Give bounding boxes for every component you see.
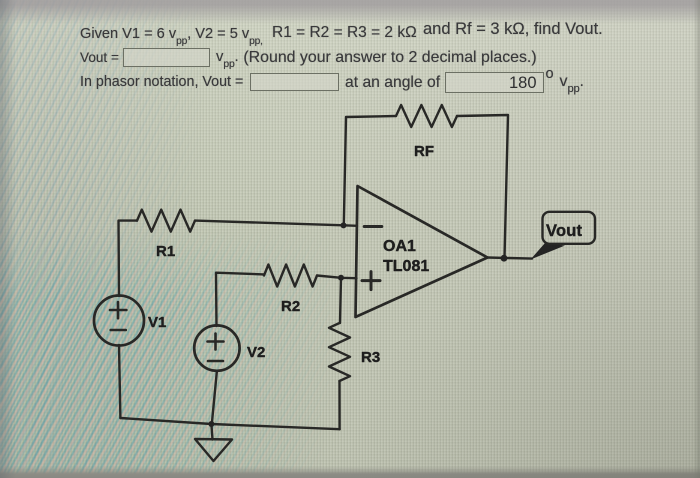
node J1 inverting input junction [341, 222, 347, 228]
node J3 non-inverting junction [338, 275, 344, 281]
resistor RF [396, 105, 457, 127]
wire R3 to bottom rail [338, 381, 341, 429]
wire output to Vout callout [488, 258, 533, 259]
op-amp plus pin label [362, 279, 380, 282]
input box Vout [123, 48, 210, 67]
svg-text:R2: R2 [281, 298, 300, 315]
svg-text:R1: R1 [156, 243, 175, 260]
svg-text:V1: V1 [148, 314, 166, 331]
resistor R1 [137, 210, 195, 232]
op-amp U1 triangle [356, 186, 488, 317]
svg-text:TL081: TL081 [383, 258, 429, 275]
svg-text:R3: R3 [361, 349, 380, 366]
svg-text:V2: V2 [247, 344, 265, 361]
node J4 ground junction [208, 421, 214, 427]
bottom rail wire [120, 418, 339, 429]
wire node B down to R3 [340, 278, 341, 323]
wire R1 to inverting node [195, 221, 357, 226]
source V1 [94, 296, 144, 346]
ground symbol [195, 439, 232, 461]
svg-text:RF: RF [414, 143, 434, 160]
Vout callout tail [531, 243, 566, 260]
wire V2 top to R2 [216, 273, 264, 326]
node J2 output junction [501, 255, 508, 262]
wire RF right down to output node [457, 115, 508, 258]
wire V1 bottom to rail [119, 345, 120, 418]
wire V2 bottom to rail [212, 371, 217, 424]
wire V1 top to R1 [119, 221, 138, 296]
svg-text:OA1: OA1 [383, 238, 416, 255]
wire node A up to RF left [344, 116, 396, 225]
op-amp minus pin label [364, 225, 382, 228]
wire R2 to non-inverting node [317, 276, 357, 279]
Vout callout box [543, 212, 596, 244]
input box phasor magnitude [250, 73, 339, 91]
source V2 [194, 325, 239, 370]
ground stub wire [211, 424, 212, 440]
input box angle value 180 [445, 72, 544, 94]
resistor R3 [329, 323, 350, 381]
svg-text:Vout: Vout [546, 222, 583, 240]
resistor R2 [264, 265, 317, 287]
